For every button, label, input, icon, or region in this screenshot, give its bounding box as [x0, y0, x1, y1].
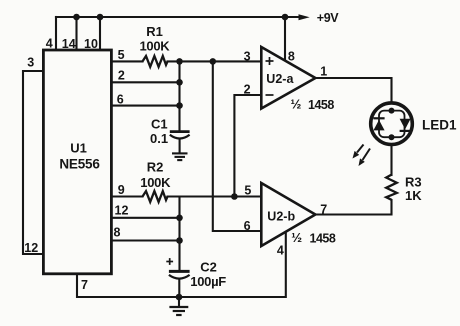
svg-text:8: 8: [288, 49, 295, 63]
svg-text:1K: 1K: [405, 188, 422, 203]
svg-text:100µF: 100µF: [190, 274, 226, 289]
svg-text:12: 12: [115, 204, 129, 218]
svg-text:U1: U1: [70, 140, 87, 155]
svg-text:1458: 1458: [310, 231, 336, 245]
svg-text:U2-a: U2-a: [266, 72, 294, 86]
svg-text:14: 14: [62, 37, 76, 51]
svg-text:100K: 100K: [140, 175, 171, 190]
svg-text:7: 7: [320, 202, 327, 216]
svg-text:C2: C2: [200, 260, 217, 275]
svg-text:6: 6: [244, 219, 251, 233]
svg-text:2: 2: [118, 68, 125, 82]
svg-text:NE556: NE556: [59, 157, 100, 172]
svg-text:1: 1: [320, 64, 327, 78]
svg-text:U2-b: U2-b: [267, 209, 295, 223]
svg-text:1458: 1458: [308, 98, 334, 112]
svg-text:3: 3: [27, 56, 34, 70]
svg-text:½: ½: [291, 230, 302, 245]
svg-text:½: ½: [291, 97, 302, 112]
svg-text:5: 5: [244, 183, 251, 197]
svg-text:0.1: 0.1: [150, 131, 168, 146]
svg-text:R2: R2: [147, 160, 164, 175]
svg-text:6: 6: [117, 92, 124, 106]
svg-text:4: 4: [277, 243, 284, 257]
svg-text:C1: C1: [151, 116, 168, 131]
svg-text:2: 2: [244, 82, 251, 96]
svg-text:LED1: LED1: [422, 117, 457, 132]
svg-text:+9V: +9V: [317, 11, 339, 25]
svg-text:12: 12: [24, 241, 38, 255]
svg-text:8: 8: [114, 225, 121, 239]
svg-text:4: 4: [46, 37, 53, 51]
svg-text:100K: 100K: [140, 38, 171, 53]
svg-text:R1: R1: [146, 24, 163, 39]
svg-text:9: 9: [118, 183, 125, 197]
svg-text:5: 5: [118, 48, 125, 62]
svg-text:3: 3: [244, 49, 251, 63]
svg-text:10: 10: [84, 37, 98, 51]
svg-text:7: 7: [81, 278, 88, 292]
